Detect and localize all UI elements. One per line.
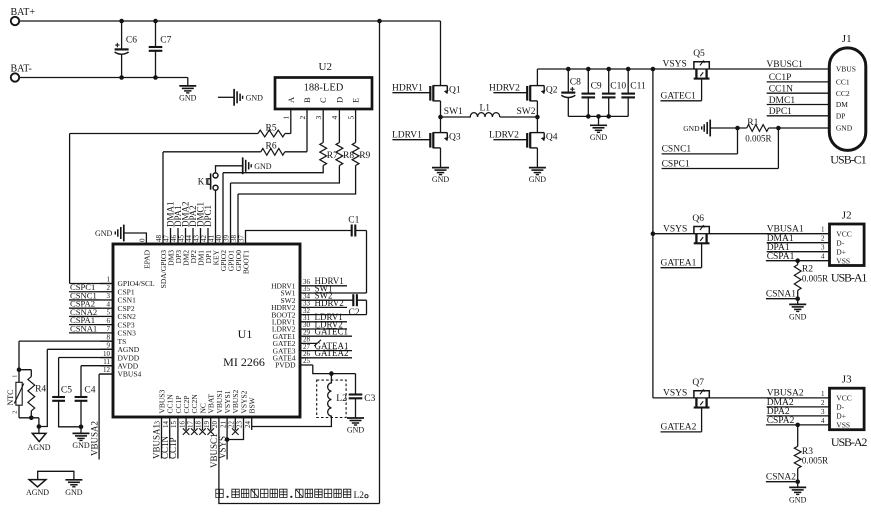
- net CSPA2: [766, 416, 830, 426]
- svg-text:VBUSA2: VBUSA2: [767, 389, 804, 399]
- no-connect pin 28: [314, 340, 321, 346]
- svg-text:MI 2266: MI 2266: [223, 355, 265, 369]
- capacitor C5: [52, 358, 113, 427]
- svg-text:4: 4: [107, 300, 111, 308]
- net CSNA2: [766, 473, 800, 485]
- wire cap bank bottom: [568, 114, 628, 119]
- svg-text:C2: C2: [349, 308, 360, 318]
- terminal BAT-: [11, 64, 32, 82]
- svg-text:1: 1: [107, 276, 111, 284]
- net GATEA2: [661, 407, 702, 433]
- svg-text:21: 21: [219, 421, 227, 429]
- U1 right pins 25-36: [271, 276, 366, 370]
- net VBUSC1: [766, 60, 803, 70]
- svg-text:2: 2: [107, 284, 111, 292]
- svg-text:25: 25: [303, 357, 311, 365]
- svg-text:CSNC1: CSNC1: [662, 145, 692, 155]
- svg-text:BOOT1: BOOT1: [241, 250, 250, 274]
- svg-text:Q6: Q6: [692, 214, 704, 224]
- svg-text:LDRV1: LDRV1: [392, 131, 422, 141]
- ground at C4: [72, 427, 90, 450]
- svg-text:C8: C8: [570, 77, 581, 87]
- svg-text:Q2: Q2: [546, 85, 558, 95]
- svg-text:Q5: Q5: [693, 49, 705, 59]
- U1 left pins 1-12: [100, 276, 155, 379]
- svg-text:CSPA1: CSPA1: [767, 252, 795, 262]
- resistor R4: [19, 370, 46, 420]
- net DPA1: [767, 243, 830, 253]
- svg-text:E: E: [351, 98, 361, 103]
- svg-text:GATEA1: GATEA1: [661, 259, 697, 269]
- wire VBUS1 to BAT+ loop: [209, 19, 382, 504]
- svg-text:L1: L1: [480, 103, 491, 113]
- svg-text:C4: C4: [84, 386, 95, 396]
- svg-text:6: 6: [107, 317, 111, 325]
- svg-text:HDRV2: HDRV2: [489, 84, 520, 94]
- svg-text:VSS: VSS: [836, 421, 850, 430]
- net DMC1: [767, 96, 830, 106]
- net VBUSA1: [767, 224, 804, 234]
- svg-text:2: 2: [821, 235, 825, 243]
- transistor Q2: [489, 69, 558, 101]
- svg-text:K1: K1: [198, 176, 209, 186]
- svg-text:GND: GND: [254, 162, 272, 171]
- svg-text:C11: C11: [630, 82, 646, 92]
- capacitor C3: [349, 374, 376, 418]
- wire R5 to pin1 U1: [70, 134, 113, 284]
- svg-text:1: 1: [12, 375, 18, 378]
- wire VSYS column: [651, 69, 656, 398]
- svg-text:AGND: AGND: [26, 488, 49, 497]
- svg-text:18: 18: [195, 421, 203, 429]
- net VBUSA2 at J3: [767, 389, 804, 399]
- wire AGND pin9: [37, 349, 113, 429]
- svg-text:15: 15: [170, 421, 178, 429]
- svg-text:PVDD: PVDD: [275, 361, 296, 370]
- wire TS: [17, 341, 113, 372]
- svg-text:CSNA1: CSNA1: [766, 290, 796, 300]
- net CC1P pin15: [168, 430, 178, 459]
- node SW1: [438, 101, 463, 133]
- ground symbol floating: [218, 89, 263, 106]
- net VBUSA1 pin13: [152, 424, 162, 459]
- capacitor C10: [602, 67, 626, 119]
- svg-text:GND: GND: [72, 441, 90, 450]
- resistor R6: [163, 109, 307, 244]
- svg-text:CSNA1: CSNA1: [70, 323, 97, 333]
- svg-text:GND: GND: [836, 124, 853, 133]
- U1 left net labels: [69, 282, 100, 333]
- svg-text:C6: C6: [126, 36, 137, 46]
- svg-text:GATEA2: GATEA2: [315, 348, 349, 358]
- svg-text:VBUS4: VBUS4: [118, 370, 142, 379]
- svg-text:VBUS: VBUS: [836, 65, 856, 74]
- capacitor C8: [561, 67, 581, 117]
- net DPC1: [767, 107, 830, 117]
- net VSYS at Q7: [663, 389, 687, 399]
- svg-text:J3: J3: [842, 374, 852, 386]
- svg-text:17: 17: [187, 421, 195, 429]
- ground tie legend: [26, 471, 83, 497]
- J2 pin numbers: [821, 226, 825, 261]
- U1 top net labels: [165, 201, 213, 227]
- svg-text:GND: GND: [347, 426, 365, 435]
- wire VSYS rail: [537, 67, 655, 72]
- svg-text:GND: GND: [95, 229, 113, 238]
- svg-text:R6: R6: [266, 142, 277, 152]
- svg-text:NTC: NTC: [6, 390, 15, 406]
- svg-text:8: 8: [107, 333, 111, 341]
- capacitor C11: [621, 67, 646, 117]
- svg-text:VCC: VCC: [836, 230, 851, 239]
- svg-text:J2: J2: [842, 209, 852, 221]
- svg-text:Q4: Q4: [546, 132, 558, 142]
- svg-text:GND: GND: [789, 496, 807, 505]
- svg-text:VSYS: VSYS: [663, 60, 687, 70]
- ground at C3: [347, 418, 365, 435]
- capacitor C7: [149, 19, 172, 80]
- net GATEA1: [661, 243, 702, 269]
- svg-text:9: 9: [107, 342, 111, 350]
- svg-text:3: 3: [314, 116, 323, 120]
- svg-text:CSNA2: CSNA2: [766, 473, 796, 483]
- net VSYS top: [663, 60, 687, 70]
- svg-text:14: 14: [162, 421, 170, 429]
- transistor Q5: [653, 49, 829, 79]
- resistor R2: [794, 258, 828, 298]
- svg-text:BAT+: BAT+: [11, 7, 36, 18]
- svg-text:C9: C9: [591, 82, 602, 92]
- svg-text:USB-A1: USB-A1: [831, 270, 868, 284]
- wire BAT+ rail: [19, 20, 440, 22]
- svg-text:GATEA2: GATEA2: [661, 423, 697, 433]
- svg-text:R5: R5: [266, 123, 277, 133]
- svg-text:USB-A2: USB-A2: [831, 435, 868, 449]
- svg-text:16: 16: [178, 421, 186, 429]
- svg-text:23: 23: [236, 421, 244, 429]
- svg-text:0: 0: [139, 238, 147, 242]
- J3 pin numbers: [821, 390, 825, 425]
- no-connect bottom pins: [183, 428, 239, 435]
- net DPA2: [767, 407, 830, 417]
- transistor Q1: [392, 21, 461, 101]
- transistor Q7: [653, 378, 830, 407]
- svg-text:AGND: AGND: [27, 443, 50, 452]
- svg-text:D-: D-: [836, 239, 844, 248]
- svg-text:1: 1: [821, 390, 825, 398]
- svg-text:CC1P: CC1P: [769, 73, 792, 83]
- svg-text:R4: R4: [35, 385, 46, 395]
- ground at R3: [789, 482, 807, 505]
- net CSPA1: [766, 252, 830, 262]
- svg-text:DM: DM: [836, 100, 848, 109]
- net CSNC1: [662, 128, 738, 155]
- note text: [216, 489, 368, 501]
- analog ground AGND: [27, 427, 50, 453]
- svg-text:0.005R: 0.005R: [802, 456, 828, 466]
- svg-text:CC2: CC2: [836, 89, 850, 98]
- U1 top pins: [139, 228, 251, 288]
- svg-text:GND: GND: [65, 488, 83, 497]
- svg-text:LDRV2: LDRV2: [489, 131, 519, 141]
- svg-text:GND: GND: [683, 124, 700, 133]
- svg-text:24: 24: [244, 421, 252, 429]
- svg-text:USB-C1: USB-C1: [830, 153, 867, 167]
- svg-text:3: 3: [821, 244, 825, 252]
- net CSNA1: [766, 290, 800, 302]
- svg-text:B: B: [302, 97, 312, 103]
- svg-text:GATEC1: GATEC1: [661, 92, 697, 102]
- svg-text:5: 5: [107, 309, 111, 317]
- net VSYS at Q6: [663, 224, 687, 234]
- resistor R5: [70, 109, 291, 137]
- svg-text:11: 11: [103, 358, 110, 366]
- svg-text:7: 7: [107, 325, 111, 333]
- svg-text:SW1: SW1: [444, 107, 463, 117]
- capacitor C4: [75, 366, 113, 429]
- push button K1: [198, 173, 218, 190]
- net CC1N: [767, 85, 830, 95]
- net GATEC1: [661, 78, 702, 101]
- ground at cap bank: [590, 116, 608, 141]
- svg-text:2: 2: [821, 399, 825, 407]
- svg-text:C3: C3: [364, 394, 375, 404]
- IC U1 body: [113, 244, 300, 417]
- wire K1 to KEY pin: [215, 190, 217, 244]
- transistor Q4: [489, 131, 558, 149]
- svg-text:L2: L2: [336, 394, 347, 404]
- capacitor C2: [349, 294, 367, 318]
- svg-text:188-LED: 188-LED: [304, 83, 344, 94]
- transistor Q3: [392, 131, 461, 149]
- svg-text:4: 4: [821, 417, 825, 425]
- svg-text:22: 22: [228, 421, 236, 429]
- svg-text:BSW: BSW: [248, 396, 257, 413]
- svg-text:VBUSA2: VBUSA2: [89, 421, 99, 456]
- svg-text:CSPA2: CSPA2: [767, 416, 795, 426]
- net VBUSA2 pin12: [89, 374, 113, 460]
- net CC1N pin14: [160, 430, 170, 459]
- wire PVDD: [313, 365, 356, 376]
- svg-text:D: D: [334, 97, 344, 103]
- resistor R7: [223, 109, 338, 244]
- svg-text:R9: R9: [359, 151, 370, 161]
- capacitor C1: [246, 215, 367, 293]
- svg-text:GND: GND: [529, 175, 547, 184]
- svg-text:GND: GND: [432, 175, 450, 184]
- svg-text:CC1N: CC1N: [769, 85, 793, 95]
- svg-text:10: 10: [103, 350, 111, 358]
- ground at EPAD: [95, 225, 146, 244]
- svg-text:3: 3: [821, 408, 825, 416]
- svg-text:J1: J1: [842, 33, 852, 45]
- ground at Q4: [529, 148, 547, 184]
- wire BAT- rail: [19, 77, 188, 79]
- svg-text:C: C: [318, 97, 328, 103]
- svg-text:20: 20: [211, 421, 219, 429]
- svg-text:L2: L2: [353, 491, 364, 501]
- svg-text:C10: C10: [610, 82, 626, 92]
- inductor L2 dashed box: [317, 380, 346, 417]
- svg-text:D+: D+: [836, 412, 846, 421]
- svg-text:R1: R1: [747, 118, 758, 128]
- resistor R8: [231, 109, 355, 244]
- net VSYS pins 21-23: [217, 430, 243, 460]
- svg-text:U2: U2: [319, 61, 332, 73]
- svg-text:3: 3: [107, 292, 111, 300]
- svg-text:0.005R: 0.005R: [802, 273, 828, 283]
- svg-text:1: 1: [282, 116, 291, 120]
- resistor R9: [238, 109, 371, 244]
- svg-text:VBUSC1: VBUSC1: [766, 60, 803, 70]
- svg-text:DMC1: DMC1: [769, 96, 796, 106]
- svg-text:D+: D+: [836, 248, 846, 257]
- svg-text:U1: U1: [238, 327, 253, 341]
- node SW2: [517, 101, 540, 133]
- wire NTC bottom: [19, 418, 39, 427]
- inductor L1: [441, 103, 538, 117]
- svg-text:VCC: VCC: [836, 394, 851, 403]
- svg-text:DPC1: DPC1: [769, 107, 792, 117]
- svg-text:VSS: VSS: [836, 257, 850, 266]
- svg-text:C5: C5: [61, 386, 72, 396]
- svg-text:EPAD: EPAD: [142, 249, 151, 268]
- svg-text:VSYS: VSYS: [663, 224, 687, 234]
- svg-text:GND: GND: [590, 133, 608, 142]
- svg-text:5: 5: [346, 116, 355, 120]
- connector J2: [830, 209, 868, 284]
- inductor L2: [252, 374, 347, 430]
- svg-text:HDRV1: HDRV1: [392, 84, 423, 94]
- svg-text:GATEC1: GATEC1: [315, 327, 349, 337]
- svg-text:19: 19: [203, 421, 211, 429]
- ground at R1: [683, 120, 710, 137]
- svg-text:12: 12: [103, 366, 111, 374]
- svg-text:4: 4: [330, 116, 339, 120]
- svg-text:VSYS: VSYS: [663, 389, 687, 399]
- U1 bottom pins: [154, 389, 257, 430]
- svg-text:CC1P: CC1P: [168, 437, 178, 459]
- svg-text:37: 37: [238, 235, 246, 243]
- ground at R2: [789, 299, 807, 322]
- svg-text:Q7: Q7: [692, 378, 704, 388]
- svg-text:BAT-: BAT-: [11, 64, 32, 75]
- svg-text:CSPC1: CSPC1: [662, 159, 690, 169]
- svg-text:4: 4: [821, 253, 825, 261]
- svg-text:2: 2: [12, 411, 18, 414]
- svg-text:C1: C1: [348, 215, 359, 225]
- svg-text:VSYS: VSYS: [217, 436, 227, 459]
- net DMA1: [767, 234, 830, 244]
- ground at battery: [179, 78, 197, 103]
- svg-text:SW2: SW2: [517, 107, 536, 117]
- thermistor NTC: [6, 370, 24, 418]
- svg-text:1: 1: [821, 226, 825, 234]
- net CSPC1: [662, 128, 779, 169]
- net CC1P: [767, 73, 830, 83]
- svg-text:GND: GND: [789, 313, 807, 322]
- svg-text:HDRV2: HDRV2: [315, 298, 344, 308]
- svg-text:Q3: Q3: [449, 132, 461, 142]
- svg-text:2: 2: [298, 116, 307, 120]
- connector J1: [829, 33, 867, 167]
- svg-text:0.005R: 0.005R: [745, 134, 771, 144]
- svg-text:GND: GND: [246, 94, 264, 103]
- svg-text:D-: D-: [836, 403, 844, 412]
- transistor Q6: [653, 214, 830, 243]
- resistor R1: [710, 118, 829, 143]
- resistor R3: [794, 423, 828, 482]
- svg-text:Q1: Q1: [449, 85, 461, 95]
- terminal BAT+: [11, 7, 36, 25]
- capacitor C6: [115, 19, 138, 80]
- svg-text:DP: DP: [836, 111, 846, 120]
- net DMA2: [767, 398, 830, 408]
- connector J3: [830, 374, 868, 449]
- ground at Q3: [432, 148, 450, 184]
- svg-text:VBUSA1: VBUSA1: [767, 224, 804, 234]
- svg-text:CC1: CC1: [836, 78, 850, 87]
- capacitor C9: [582, 67, 602, 119]
- svg-text:C7: C7: [160, 36, 171, 46]
- svg-text:A: A: [286, 96, 296, 103]
- LED display U2: [275, 61, 372, 120]
- svg-text:GND: GND: [179, 93, 197, 102]
- svg-text:DPC1: DPC1: [203, 205, 213, 227]
- ground at K1: [216, 157, 272, 174]
